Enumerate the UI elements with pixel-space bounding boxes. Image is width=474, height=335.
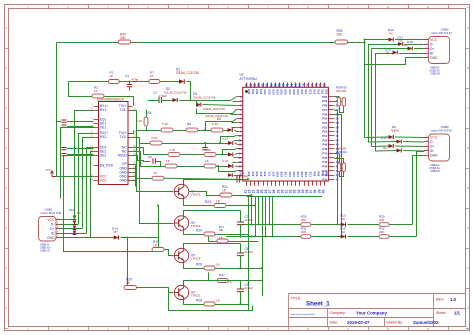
resistor R19	[152, 248, 164, 252]
wire extra MCU left pin feeds	[233, 101, 237, 103]
svg-text:E: E	[467, 186, 469, 190]
wire top row to R1	[69, 81, 109, 83]
svg-text:470p: 470p	[132, 78, 139, 82]
svg-text:P49: P49	[322, 143, 327, 147]
svg-text:20K: 20K	[301, 230, 306, 234]
diode D3	[196, 103, 201, 107]
svg-text:1K: 1K	[110, 74, 114, 78]
wire USB3 D- row	[368, 141, 397, 144]
resistor R27	[217, 279, 228, 283]
svg-text:H: H	[467, 306, 469, 310]
svg-text:20K: 20K	[342, 147, 347, 151]
svg-text:20K: 20K	[337, 33, 344, 37]
wire row4	[140, 143, 151, 145]
svg-text:OE1: OE1	[100, 126, 107, 130]
svg-text:SG4: SG4	[296, 172, 300, 178]
wire U1 EP/GND stubs	[133, 165, 136, 181]
wire R24 out	[215, 234, 248, 236]
wire EO2/DE2/OE2 drop to R19	[64, 156, 153, 252]
svg-text:USB1-ID: USB1-ID	[40, 250, 50, 253]
wire Q4 collector	[184, 281, 241, 286]
svg-text:SG6: SG6	[284, 89, 288, 95]
svg-text:REV:: REV:	[436, 298, 444, 302]
resistor R36 (vertical)	[337, 98, 340, 107]
svg-text:SG5: SG5	[292, 172, 296, 178]
wire Q1 collector	[184, 180, 238, 185]
svg-text:20K: 20K	[336, 89, 341, 93]
wire USB3 ID row	[375, 150, 397, 153]
MCU U2 pin 1 marker	[245, 90, 248, 93]
svg-text:S14: S14	[317, 89, 321, 94]
wire Q6 emitter to R24	[184, 231, 205, 235]
svg-text:R28: R28	[196, 299, 202, 303]
wire row2 junction to pin1 row	[191, 97, 237, 101]
resistor R30	[301, 223, 311, 227]
svg-text:SG9: SG9	[296, 89, 300, 95]
svg-text:SG8: SG8	[292, 89, 296, 95]
svg-text:P47: P47	[322, 151, 327, 155]
svg-text:S12: S12	[308, 89, 312, 94]
svg-text:4.7K: 4.7K	[169, 148, 176, 152]
wire row2 cont	[179, 100, 196, 102]
svg-text:VCC: VCC	[430, 38, 438, 42]
svg-text:C9: C9	[148, 155, 152, 159]
svg-text:S10: S10	[271, 172, 275, 177]
svg-text:P03: P03	[312, 172, 316, 177]
wire vertical bus to USB3 rows	[364, 40, 366, 138]
wire D3 to MCU pin	[196, 101, 198, 105]
svg-text:TIP132: TIP132	[191, 224, 201, 228]
wire riser to R20	[125, 238, 128, 288]
svg-text:P41: P41	[322, 178, 327, 182]
svg-text:12: 12	[238, 143, 242, 147]
connector USB2 micro-5P-5.9-M	[429, 37, 450, 64]
svg-text:ATT7507BU: ATT7507BU	[240, 77, 258, 81]
wire	[311, 236, 341, 238]
svg-text:TX1-: TX1-	[120, 108, 127, 112]
svg-text:P56: P56	[322, 112, 327, 116]
resistor R1	[108, 80, 119, 84]
svg-text:20K: 20K	[336, 147, 341, 151]
svg-text:P02: P02	[317, 172, 321, 177]
svg-text:220uF: 220uF	[245, 250, 254, 254]
svg-text:D-: D-	[430, 140, 434, 144]
wire USB3 VCC row	[365, 136, 389, 139]
MCU U2 bottom pin stubs	[247, 181, 325, 186]
svg-text:F: F	[5, 226, 7, 230]
capacitor C2 470uF	[159, 97, 161, 103]
svg-text:P01: P01	[321, 172, 325, 177]
MCU U2 top pin stubs	[247, 83, 325, 88]
svg-text:5.1K: 5.1K	[136, 119, 143, 123]
svg-text:2019-07-07: 2019-07-07	[347, 320, 370, 325]
svg-text:P54: P54	[322, 121, 327, 125]
wire top rail to USB2 diode bank	[348, 42, 365, 44]
svg-text:SG3: SG3	[271, 89, 275, 95]
resistor R29	[379, 223, 389, 227]
diode D15	[341, 235, 346, 239]
wire bottom loop	[169, 293, 253, 311]
svg-text:Sheet_1: Sheet_1	[306, 301, 330, 308]
wire Q6 collector	[184, 211, 241, 216]
svg-text:P59: P59	[322, 99, 327, 103]
svg-text:RSVD: RSVD	[118, 154, 128, 158]
wire rows to MCU pins mid	[197, 109, 237, 114]
svg-text:20K: 20K	[342, 89, 347, 93]
svg-text:80: 80	[323, 83, 327, 87]
diode D18	[408, 47, 413, 51]
capacitor C4a vertical on row4	[205, 144, 207, 148]
wire Q1 emitter to R23	[184, 199, 215, 206]
svg-text:D+: D+	[50, 227, 54, 231]
svg-text:micro-5P-5.9-M: micro-5P-5.9-M	[431, 128, 452, 132]
wire row5	[133, 148, 169, 155]
svg-text:Samuel2202: Samuel2202	[413, 320, 439, 325]
wire below R33/R34	[340, 172, 344, 177]
svg-text:B: B	[467, 66, 469, 70]
svg-text:1K: 1K	[94, 89, 98, 93]
svg-text:Your Company: Your Company	[356, 311, 387, 316]
svg-text:GND: GND	[430, 56, 438, 60]
resistor R31	[301, 235, 311, 239]
svg-text:40: 40	[321, 189, 325, 193]
svg-text:SG1: SG1	[308, 172, 312, 178]
svg-text:4.7A: 4.7A	[222, 159, 229, 163]
capacitor C5 220uF	[240, 281, 242, 289]
wire MCU right pins to R35/R36	[334, 96, 339, 98]
wire row A (y=224.5)	[243, 224, 301, 226]
svg-text:H: H	[5, 306, 7, 310]
wire top rail	[131, 42, 335, 44]
svg-text:5.1K: 5.1K	[162, 122, 169, 126]
svg-text:GND: GND	[430, 153, 438, 157]
svg-text:ID: ID	[51, 231, 55, 235]
svg-text:Company:: Company:	[330, 311, 346, 315]
resistor R34 (vertical)	[342, 163, 345, 172]
svg-text:14: 14	[238, 151, 242, 155]
svg-text:220uF: 220uF	[240, 174, 249, 178]
svg-text:S10: S10	[300, 89, 304, 94]
wire MCU right pins to R33/R34	[334, 153, 339, 155]
diode D5	[228, 141, 233, 145]
svg-text:20K: 20K	[301, 218, 306, 222]
wire U1 right lower pins to cluster	[133, 156, 151, 162]
resistor R23	[214, 204, 226, 208]
wire row2	[161, 100, 172, 102]
svg-text:S15: S15	[321, 89, 325, 94]
svg-text:S13: S13	[312, 89, 316, 94]
wire D1 down to row2	[181, 82, 191, 101]
svg-text:TIP132: TIP132	[191, 193, 201, 197]
svg-text:R27: R27	[219, 273, 225, 277]
svg-text:Date:: Date:	[330, 321, 339, 325]
resistor R2	[92, 94, 104, 98]
wire R25 row	[209, 241, 218, 243]
resistor R40	[118, 40, 131, 44]
transistor Q6 TIP132	[174, 216, 188, 230]
svg-text:NB50: NB50	[391, 129, 399, 133]
IC U1 DS90UB905QSQX body	[99, 102, 129, 185]
wire stage bus riser x=158	[158, 206, 160, 248]
transistor Q5 TIP132	[174, 248, 188, 262]
svg-text:D+: D+	[430, 47, 434, 51]
svg-text:S16: S16	[325, 89, 329, 94]
svg-text:SG3: SG3	[300, 172, 304, 178]
svg-text:470uF: 470uF	[159, 94, 168, 98]
svg-text:4.7K: 4.7K	[205, 148, 212, 152]
svg-text:P60: P60	[322, 95, 327, 99]
resistor R28	[204, 302, 215, 306]
svg-text:P00: P00	[325, 172, 329, 177]
capacitor C7 220uF	[240, 211, 242, 222]
svg-text:VCC: VCC	[47, 218, 55, 222]
svg-text:NC: NC	[389, 32, 394, 36]
wire below R35/R36	[340, 107, 344, 113]
svg-text:C3: C3	[125, 74, 129, 78]
wire row7	[137, 131, 153, 179]
svg-text:SG9: SG9	[276, 172, 280, 178]
MCU U2 ATT7507BU body	[243, 87, 329, 181]
capacitor C4 220uF	[237, 176, 240, 183]
svg-text:S13: S13	[259, 172, 263, 177]
resistor R21	[220, 193, 232, 197]
diode D14	[114, 236, 119, 240]
svg-text:P55: P55	[322, 117, 327, 121]
svg-text:EN_RXD: EN_RXD	[100, 164, 114, 168]
svg-text:SG6: SG6	[288, 172, 292, 178]
diode D19	[393, 51, 398, 55]
svg-text:4.7K: 4.7K	[151, 136, 158, 140]
svg-text:A: A	[467, 26, 469, 30]
svg-text:G51M_C211746: G51M_C211746	[203, 107, 225, 111]
svg-text:SG2: SG2	[304, 172, 308, 178]
svg-text:SG7: SG7	[284, 172, 288, 178]
wire Q5 collector	[184, 244, 241, 249]
svg-text:12: 12	[466, 5, 470, 9]
svg-text:F: F	[467, 226, 469, 230]
wire R27 row	[209, 280, 218, 282]
diode D16	[389, 38, 394, 42]
wire USB2 D+ row	[372, 48, 408, 50]
resistor R4 vertical	[144, 117, 148, 126]
resistor R35 (vertical)	[342, 98, 345, 107]
wire MCU bottom ground bus	[247, 196, 322, 198]
svg-text:G51M_C211746: G51M_C211746	[205, 114, 228, 118]
svg-text:ID: ID	[430, 51, 434, 55]
svg-text:SG2: SG2	[267, 89, 271, 95]
svg-text:P45: P45	[322, 160, 327, 164]
resistor R39	[335, 40, 348, 44]
resistor R26	[204, 266, 215, 270]
svg-text:M8: M8	[219, 228, 223, 232]
MCU U2 left pin stubs	[237, 97, 243, 180]
svg-text:USB3-ID: USB3-ID	[430, 170, 440, 173]
svg-text:TIP132: TIP132	[191, 294, 201, 298]
wire Q1 base bus	[137, 179, 174, 192]
svg-text:S15: S15	[251, 172, 255, 177]
svg-text:SG1: SG1	[263, 89, 267, 95]
diode D17	[398, 42, 403, 46]
svg-text:20K: 20K	[120, 36, 127, 40]
svg-text:U2: U2	[240, 73, 244, 77]
wire row B (y=236.5)	[226, 236, 301, 238]
svg-text:11: 11	[426, 327, 429, 331]
svg-text:16: 16	[238, 160, 242, 164]
svg-text:1.0: 1.0	[450, 297, 457, 302]
svg-text:P44: P44	[322, 165, 327, 169]
diode D10	[397, 140, 402, 144]
svg-text:SG4: SG4	[276, 89, 280, 95]
wire USB1 pin rows	[61, 219, 75, 221]
svg-text:TX2-: TX2-	[120, 135, 127, 139]
svg-text:D-: D-	[51, 222, 55, 226]
svg-text:D11: D11	[69, 208, 74, 212]
svg-text:C2: C2	[153, 91, 157, 95]
diode D9	[389, 135, 394, 139]
wire row3	[136, 130, 161, 132]
svg-text:20K: 20K	[379, 230, 384, 234]
node C3 tap	[129, 81, 131, 83]
svg-text:5.1K: 5.1K	[212, 122, 219, 126]
title block	[289, 294, 466, 327]
svg-text:S12: S12	[263, 172, 267, 177]
wire R2 to U1 top	[105, 97, 134, 106]
svg-text:S11: S11	[304, 89, 308, 94]
row7 (y=178.2)	[152, 176, 164, 180]
svg-text:R24: R24	[196, 229, 202, 233]
svg-text:D-: D-	[430, 42, 434, 46]
wire USB2 VCC row	[365, 39, 389, 41]
resistor R20	[124, 286, 137, 290]
capacitor C9	[153, 158, 155, 164]
svg-text:220uF: 220uF	[245, 286, 254, 290]
svg-text:NC: NC	[77, 211, 81, 215]
svg-text:VCC: VCC	[430, 135, 438, 139]
diode D13	[341, 223, 346, 227]
svg-text:USB2-ID: USB2-ID	[430, 73, 440, 76]
capacitor C13 (DE1 filter)	[67, 126, 94, 128]
wire VCC rail from R40 to left bus	[57, 42, 119, 44]
svg-text:P03: P03	[259, 89, 263, 94]
svg-text:12: 12	[466, 327, 470, 331]
svg-text:B: B	[5, 66, 7, 70]
svg-text:P00: P00	[247, 89, 251, 94]
svg-text:P51: P51	[322, 134, 327, 138]
wire USB3 GND row from R29	[413, 156, 425, 225]
wire from D14 to riser	[121, 237, 159, 239]
diode D1	[179, 79, 184, 83]
svg-text:lceda.cn/user/samuel2202: lceda.cn/user/samuel2202	[290, 313, 316, 316]
connector USB1 micro-5P-5.9-M	[39, 217, 57, 242]
svg-text:micro-5P-5.9-M: micro-5P-5.9-M	[41, 211, 62, 215]
svg-text:D+: D+	[430, 144, 434, 148]
capacitor C12 (EQ1 filter)	[67, 121, 94, 123]
svg-text:P02: P02	[255, 89, 259, 94]
svg-text:11: 11	[426, 5, 429, 9]
wire D11 stack riser	[74, 216, 76, 220]
diode D12	[389, 144, 394, 148]
svg-text:R4: R4	[148, 111, 152, 115]
wire Q5 emitter to R26	[184, 263, 205, 269]
svg-text:10: 10	[386, 5, 390, 9]
transistor Q1 TIP132	[174, 184, 188, 198]
svg-text:P57: P57	[322, 108, 327, 112]
wire Q4 base from R20	[137, 288, 174, 293]
wire Q6 base bus	[140, 144, 174, 224]
svg-text:S14: S14	[255, 172, 259, 177]
svg-text:micro-5P-5.9-M: micro-5P-5.9-M	[431, 31, 452, 35]
svg-text:TITLE:: TITLE:	[291, 297, 302, 301]
connector USB3 micro-5P-5.9-M	[429, 134, 450, 161]
wire R1 to C3 node	[119, 81, 149, 83]
MCU U2 right pin stubs	[328, 97, 334, 180]
diode D8	[228, 173, 232, 177]
svg-text:P46: P46	[322, 156, 327, 160]
svg-text:E: E	[5, 186, 7, 190]
wire	[348, 224, 380, 226]
svg-text:220uF: 220uF	[245, 218, 254, 222]
svg-text:P48: P48	[322, 147, 327, 151]
node row A left end	[251, 236, 253, 238]
wire MCU right pin risers down	[334, 110, 337, 112]
node USB2 vcc junction	[364, 39, 366, 41]
svg-text:GND: GND	[119, 179, 127, 183]
wire OE1 drop	[61, 128, 94, 199]
wire USB2 D- row	[368, 44, 398, 46]
svg-text:GND: GND	[47, 236, 55, 240]
resistor R33 (vertical)	[337, 163, 340, 172]
svg-text:R26: R26	[196, 263, 202, 267]
svg-text:G51M_C211746: G51M_C211746	[193, 96, 216, 100]
row3 resistors (y=130)	[161, 128, 173, 132]
svg-text:TIP132: TIP132	[191, 257, 201, 261]
svg-text:SG8: SG8	[280, 172, 284, 178]
wire USB3 D+ row	[372, 145, 389, 148]
svg-text:Drawn By:: Drawn By:	[387, 321, 404, 325]
diode D6	[228, 153, 233, 157]
svg-text:G51M_C211746: G51M_C211746	[176, 71, 199, 75]
wire R26 out	[215, 268, 241, 270]
row6 (y=166)	[165, 164, 177, 168]
wire MCU bottom pin bus risers	[248, 197, 250, 311]
svg-text:SG7: SG7	[288, 89, 292, 95]
svg-text:VCC: VCC	[100, 179, 108, 183]
wire R2 branch vertical	[69, 82, 93, 97]
svg-text:RX2-: RX2-	[100, 135, 108, 139]
svg-text:G51M_C211746: G51M_C211746	[164, 91, 187, 95]
wire riser from R32 row	[417, 151, 425, 153]
wire USB2 GND row	[365, 58, 425, 65]
node bottom bus junctions	[251, 224, 253, 226]
svg-text:S11: S11	[267, 172, 271, 177]
svg-text:20K: 20K	[379, 218, 384, 222]
node D14 junction	[127, 237, 129, 239]
svg-text:Sheet:: Sheet:	[436, 311, 446, 315]
wire	[348, 236, 380, 238]
wire Q1 right to R21	[189, 192, 221, 196]
wire R28 out	[215, 304, 241, 306]
diode D2	[173, 98, 178, 102]
svg-text:1K: 1K	[150, 74, 154, 78]
capacitor C3 470p	[129, 82, 131, 85]
svg-text:VCC: VCC	[46, 168, 53, 172]
diode D4	[228, 128, 233, 132]
node junction top-right	[363, 41, 365, 43]
row5 resistors (y=154.5)	[168, 153, 180, 157]
diode D20	[397, 149, 402, 153]
wire	[389, 236, 417, 238]
wire left bus drop lines	[75, 111, 94, 220]
